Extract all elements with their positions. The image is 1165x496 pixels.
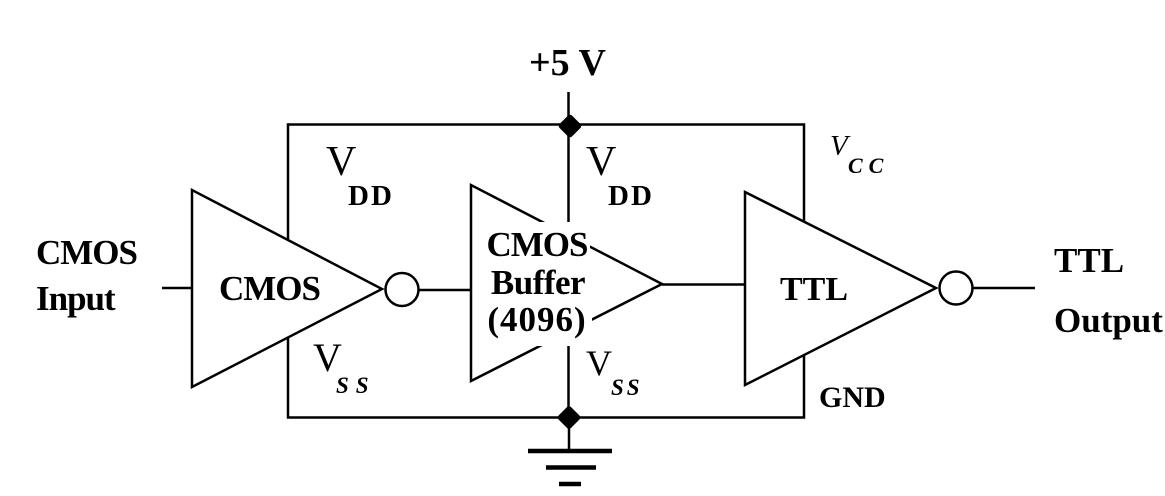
node: +5V junction dot [562,118,579,135]
svg-text:(4096): (4096) [487,300,586,339]
svg-text:CC: CC [848,153,889,178]
wire TTL output [973,287,1036,290]
svg-text:DD: DD [348,180,394,212]
wire U1 output to buffer input [419,289,470,292]
wire +5V stub [567,92,570,126]
ground stem wire [568,418,571,452]
buffer U2 CMOS buffer triangle [471,185,662,381]
svg-text:Input: Input [36,279,116,318]
wire buffer VSS pin [567,328,570,418]
inverter U3 TTL triangle [745,192,936,385]
svg-text:DD: DD [608,180,654,212]
svg-text:Buffer: Buffer [491,263,585,302]
node: ground junction dot [561,409,578,426]
svg-text:CMOS: CMOS [219,269,320,308]
svg-text:SS: SS [336,373,376,398]
inverter U1 CMOS triangle [192,190,382,387]
inverter U3 output bubble [940,272,973,305]
inverter U1 output bubble [386,273,419,306]
svg-text:TTL: TTL [1054,241,1124,280]
svg-text:CMOS: CMOS [36,233,137,272]
svg-text:TTL: TTL [780,271,848,308]
svg-text:GND: GND [819,381,886,414]
wire buffer output to TTL input [662,283,744,286]
label CMOS Buffer (4096) inside U2, white-backed text [484,222,590,258]
wire buffer VDD pin [567,126,570,238]
svg-text:V: V [586,343,612,383]
wire CMOS input [162,287,191,290]
svg-text:V: V [326,139,356,185]
svg-text:CMOS: CMOS [487,225,588,264]
svg-text:SS: SS [611,375,643,400]
ground symbol [528,451,612,484]
svg-text:Output: Output [1054,301,1163,340]
svg-text:V: V [586,139,616,185]
power rail rectangle (VDD top rail, VSS bottom rail, left and right rails) [288,125,804,418]
svg-text:+5 V: +5 V [529,42,606,84]
